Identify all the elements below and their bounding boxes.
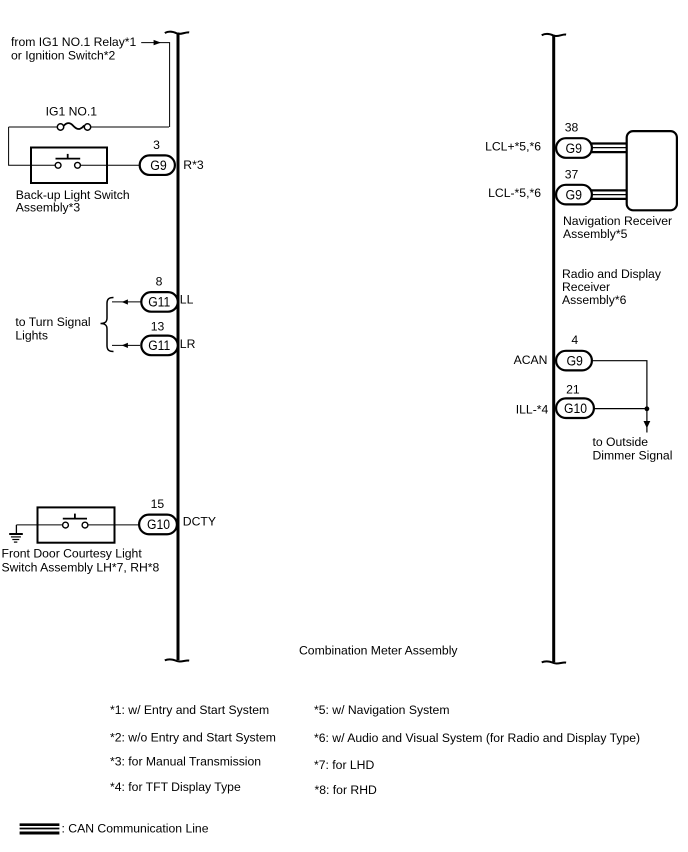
- wire: G11-8 to turn signal (arrow left): [112, 299, 141, 304]
- svg-text:Assembly*3: Assembly*3: [16, 200, 81, 214]
- svg-text:Navigation Receiver: Navigation Receiver: [563, 214, 672, 228]
- svg-text:G10: G10: [147, 517, 170, 532]
- label: Navigation Receiver Assembly*5: [563, 214, 672, 241]
- navigation receiver assembly box: [627, 131, 677, 210]
- label: from IG1 NO.1 Relay: [11, 35, 137, 63]
- CAN communication line (pin 38 to navigation receiver): [592, 144, 627, 153]
- svg-text:*5: w/ Navigation System: *5: w/ Navigation System: [314, 703, 449, 717]
- back-up light switch assembly box: [31, 148, 140, 184]
- arrow to outside dimmer signal: [644, 421, 651, 428]
- svg-text:*4: for TFT Display Type: *4: for TFT Display Type: [110, 780, 241, 794]
- ground: [9, 525, 23, 542]
- svg-text:Dimmer Signal: Dimmer Signal: [593, 448, 673, 462]
- combination meter bus line (left): [165, 32, 189, 662]
- footnotes right column: [314, 703, 640, 797]
- svg-text:to Turn Signal: to Turn Signal: [15, 315, 90, 329]
- connector G10 pin 21 (ILL-): [516, 382, 594, 418]
- legend: CAN communication line symbol: [20, 821, 209, 835]
- connector G9 pin 37: [488, 167, 592, 204]
- svg-text:Receiver: Receiver: [562, 280, 610, 294]
- svg-text:ACAN: ACAN: [514, 353, 548, 367]
- fuse IG1 NO.1: [9, 104, 169, 130]
- svg-text:Assembly*5: Assembly*5: [563, 227, 628, 241]
- brace for turn signal lights: [101, 298, 114, 352]
- svg-text:37: 37: [565, 167, 579, 181]
- svg-text:G9: G9: [566, 353, 583, 368]
- wire: ACAN to outside dimmer: [592, 361, 647, 433]
- svg-text:or Ignition Switch*2: or Ignition Switch*2: [11, 49, 116, 63]
- svg-text:G10: G10: [564, 401, 587, 416]
- svg-text:Front Door Courtesy Light: Front Door Courtesy Light: [2, 547, 143, 561]
- svg-text:Combination Meter Assembly: Combination Meter Assembly: [299, 644, 458, 658]
- svg-text:*7: for LHD: *7: for LHD: [314, 758, 374, 772]
- svg-text:IG1 NO.1: IG1 NO.1: [46, 104, 98, 118]
- svg-text:Switch Assembly LH*7, RH*8: Switch Assembly LH*7, RH*8: [2, 561, 160, 575]
- wire: ground to courtesy switch: [16, 524, 37, 526]
- svg-text:13: 13: [151, 320, 165, 334]
- svg-text:*6: w/ Audio and Visual System: *6: w/ Audio and Visual System (for Radi…: [314, 731, 640, 745]
- svg-text:38: 38: [565, 120, 579, 134]
- label: to Turn Signal Lights: [15, 315, 90, 343]
- svg-text:G11: G11: [148, 338, 170, 353]
- CAN communication line (pin 37 to navigation receiver): [592, 190, 627, 199]
- svg-text:G9: G9: [566, 187, 583, 202]
- svg-text:*3: for Manual Transmission: *3: for Manual Transmission: [110, 754, 261, 768]
- svg-text:LR: LR: [180, 337, 196, 351]
- connector G9 pin 3: [140, 138, 204, 175]
- svg-text:G9: G9: [566, 141, 583, 156]
- svg-text:R*3: R*3: [183, 158, 204, 172]
- svg-text:Lights: Lights: [15, 329, 48, 343]
- label: Front Door Courtesy Light Switch Assembly: [2, 547, 160, 575]
- connector G10 pin 15: [139, 497, 216, 534]
- combination meter bus line (right): [542, 34, 566, 664]
- svg-text:*2: w/o Entry and Start System: *2: w/o Entry and Start System: [110, 730, 276, 744]
- svg-text:*8: for RHD: *8: for RHD: [315, 783, 378, 797]
- connector G9 pin 4 (ACAN): [514, 333, 592, 370]
- junction: [645, 406, 650, 411]
- svg-text:ILL-*4: ILL-*4: [516, 402, 549, 416]
- wire: fuse to back-up light switch: [9, 127, 31, 165]
- svg-text:LCL-*5,*6: LCL-*5,*6: [488, 186, 541, 200]
- svg-text:3: 3: [153, 138, 160, 152]
- svg-text:8: 8: [156, 275, 163, 289]
- connector G11 pin 13: [141, 320, 195, 356]
- svg-text:4: 4: [571, 333, 578, 347]
- svg-text:Assembly*6: Assembly*6: [562, 293, 627, 307]
- svg-text:15: 15: [151, 497, 165, 511]
- label: Radio and Display Receiver Assembly*6: [562, 267, 662, 307]
- wire: relay feed with arrow into bus drop: [141, 40, 169, 127]
- label: to Outside Dimmer Signal: [593, 435, 673, 462]
- svg-text:21: 21: [566, 382, 580, 396]
- footnotes left column: [110, 703, 276, 794]
- connector G9 pin 38: [485, 120, 592, 158]
- svg-text:LL: LL: [180, 293, 194, 307]
- svg-text:G9: G9: [150, 158, 167, 173]
- connector G11 pin 8: [141, 275, 193, 312]
- svg-text:to Outside: to Outside: [593, 435, 649, 449]
- svg-text:DCTY: DCTY: [183, 515, 216, 529]
- wire: ILL- joins dimmer line: [594, 408, 647, 410]
- wire: G11-13 to turn signal (arrow left): [112, 343, 140, 348]
- svg-text:: CAN Communication Line: : CAN Communication Line: [62, 821, 209, 835]
- label: Back-up Light Switch Assembly*3: [16, 188, 130, 214]
- svg-text:Radio and Display: Radio and Display: [562, 267, 662, 281]
- svg-text:from IG1 NO.1 Relay*1: from IG1 NO.1 Relay*1: [11, 35, 137, 49]
- svg-text:G11: G11: [148, 295, 170, 310]
- svg-text:LCL+*5,*6: LCL+*5,*6: [485, 139, 541, 153]
- svg-text:*1: w/ Entry and Start System: *1: w/ Entry and Start System: [110, 703, 269, 717]
- front door courtesy light switch box: [38, 507, 140, 542]
